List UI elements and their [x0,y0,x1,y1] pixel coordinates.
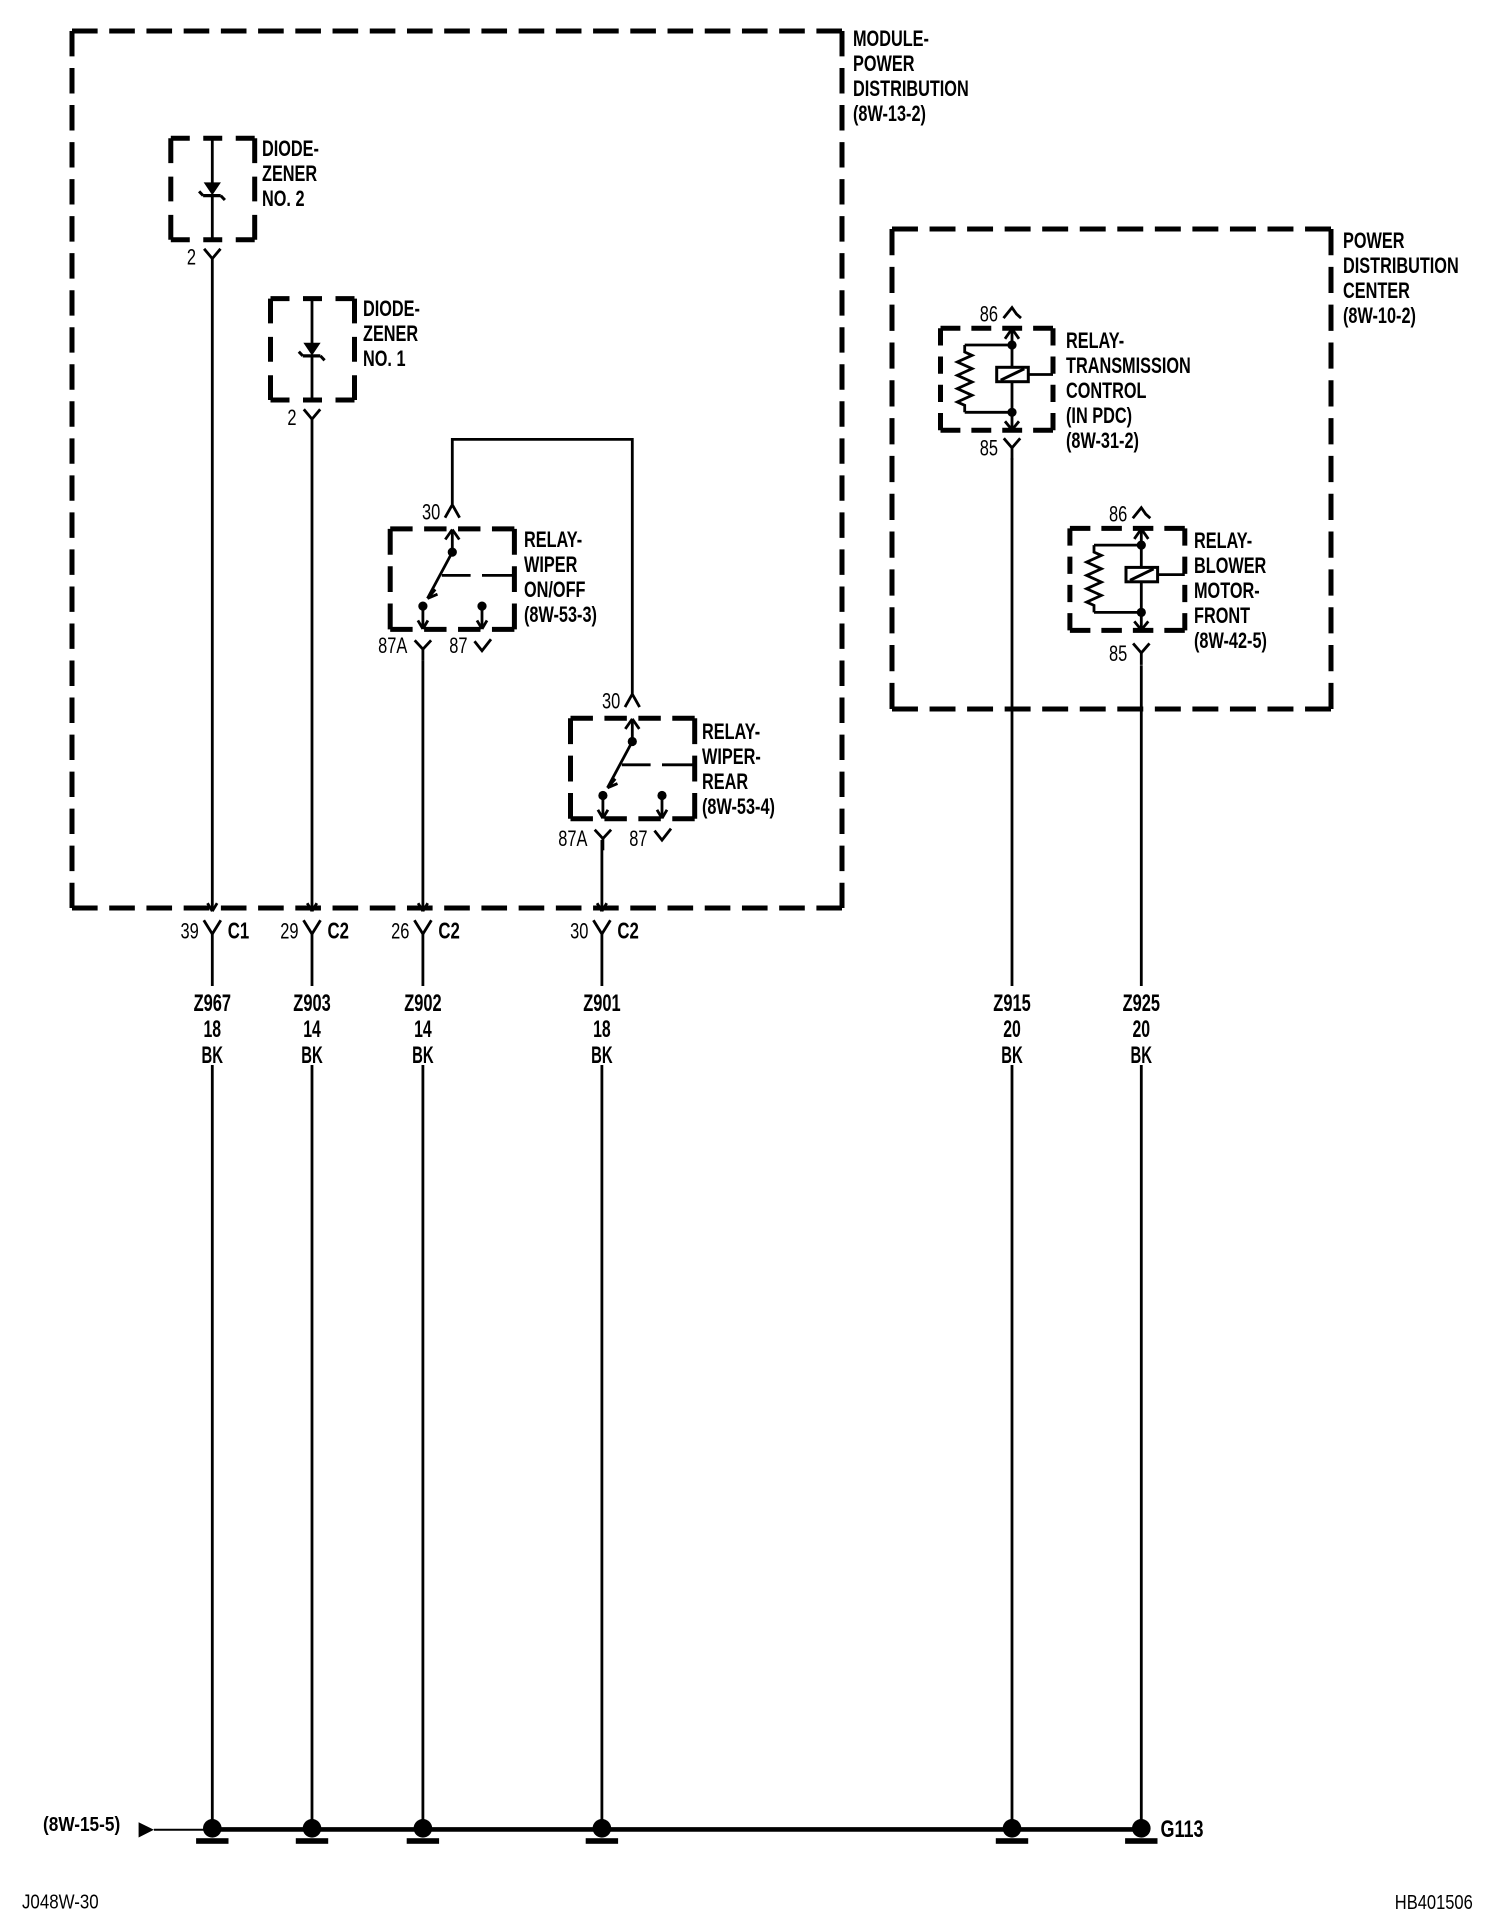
ground G113 label [1161,1816,1204,1843]
footer label J048W-30 [22,1892,99,1914]
svg-text:Z925: Z925 [1123,990,1160,1017]
svg-text:HB401506: HB401506 [1395,1892,1473,1914]
svg-text:86: 86 [1109,502,1127,527]
svg-text:87A: 87A [558,826,588,851]
wire: jumper to relay pin 30s [452,439,632,693]
svg-text:G113: G113 [1161,1816,1204,1843]
svg-text:Z967: Z967 [194,990,231,1017]
wire Z901 upper segment [597,840,607,911]
wire Z902 upper segment [418,661,428,911]
svg-text:RELAY-: RELAY- [1194,528,1252,553]
svg-text:ZENER: ZENER [262,161,317,186]
svg-text:86: 86 [980,302,998,327]
wire Z915 label [993,990,1030,1069]
wire Z915 upper segment [1011,458,1014,986]
svg-text:TRANSMISSION: TRANSMISSION [1066,353,1191,378]
svg-text:C2: C2 [617,919,638,944]
svg-text:Z901: Z901 [583,990,620,1017]
svg-text:RELAY-: RELAY- [524,527,582,552]
svg-text:87: 87 [449,633,467,658]
svg-text:WIPER-: WIPER- [702,744,761,769]
wire Z967 label [194,947,231,1069]
svg-text:85: 85 [1109,641,1127,666]
ground junction (Z967) [196,1819,228,1844]
svg-text:20: 20 [1003,1016,1021,1043]
svg-text:DISTRIBUTION: DISTRIBUTION [1343,253,1459,278]
pin 39 connector C1 [181,919,250,947]
svg-text:(8W-31-2): (8W-31-2) [1066,428,1139,453]
wire Z901 lower segment [601,1065,604,1824]
svg-text:(IN PDC): (IN PDC) [1066,403,1132,428]
svg-text:30: 30 [570,919,588,944]
relay K4: RELAY-BLOWER MOTOR-FRONT [1070,502,1267,666]
svg-text:REAR: REAR [702,769,748,794]
svg-text:CENTER: CENTER [1343,278,1410,303]
zener diode D2: DIODE-ZENER NO. 2 [171,136,319,239]
wire Z967 lower segment [211,1065,214,1824]
ground junction (Z901) [586,1819,618,1844]
svg-text:DIODE-: DIODE- [363,296,420,321]
svg-text:(8W-10-2): (8W-10-2) [1343,303,1416,328]
svg-text:Z903: Z903 [293,990,330,1017]
wire Z901 label [583,947,620,1069]
svg-text:30: 30 [422,500,440,525]
svg-text:2: 2 [187,245,196,270]
svg-text:Z915: Z915 [993,990,1030,1017]
wire Z915 lower segment [1011,1065,1014,1824]
pin 2 (zener no.1) [287,405,320,430]
wire Z925 label [1123,990,1160,1069]
ground junction (Z915) [996,1819,1028,1844]
wire Z902 lower segment [421,1065,424,1824]
ground bus wire [212,1827,1141,1832]
svg-text:18: 18 [593,1016,611,1043]
ground junction (Z902) [407,1819,439,1844]
wire Z925 lower segment [1140,1065,1143,1824]
svg-text:Z902: Z902 [404,990,441,1017]
svg-text:NO. 1: NO. 1 [363,346,406,371]
svg-text:POWER: POWER [1343,228,1405,253]
svg-text:MOTOR-: MOTOR- [1194,578,1260,603]
svg-text:20: 20 [1133,1016,1151,1043]
svg-text:(8W-15-5): (8W-15-5) [43,1814,120,1836]
svg-text:(8W-42-5): (8W-42-5) [1194,628,1267,653]
svg-text:C2: C2 [328,919,349,944]
pin 30 connector C2 [570,919,639,947]
svg-text:WIPER: WIPER [524,552,577,577]
svg-text:87: 87 [629,826,647,851]
svg-text:BLOWER: BLOWER [1194,553,1266,578]
pin 2 (zener no.2) [187,245,221,270]
svg-text:(8W-53-4): (8W-53-4) [702,794,775,819]
svg-text:C2: C2 [438,919,459,944]
svg-text:J048W-30: J048W-30 [22,1892,99,1914]
svg-text:NO. 2: NO. 2 [262,186,305,211]
svg-text:DISTRIBUTION: DISTRIBUTION [853,76,969,101]
wire Z903 label [293,947,330,1069]
svg-text:29: 29 [280,919,298,944]
svg-text:POWER: POWER [853,51,915,76]
svg-text:87A: 87A [378,633,408,658]
svg-text:CONTROL: CONTROL [1066,378,1147,403]
svg-text:ZENER: ZENER [363,321,418,346]
svg-text:39: 39 [181,919,199,944]
svg-text:ON/OFF: ON/OFF [524,577,586,602]
svg-text:RELAY-: RELAY- [702,719,760,744]
wire Z967 upper segment [208,267,218,912]
relay K3: RELAY-TRANSMISSION CONTROL [941,302,1191,461]
ground junction (Z925) [1125,1819,1157,1844]
wire Z902 label [404,947,441,1069]
svg-text:14: 14 [414,1016,432,1043]
module box: MODULE-POWER DISTRIBUTION [72,26,969,908]
svg-text:2: 2 [287,405,296,430]
wire Z903 lower segment [311,1065,314,1824]
svg-text:(8W-53-3): (8W-53-3) [524,602,597,627]
footer label HB401506 [1395,1892,1473,1914]
relay K1: RELAY-WIPER ON/OFF [378,500,597,661]
svg-text:DIODE-: DIODE- [262,136,319,161]
svg-text:(8W-13-2): (8W-13-2) [853,101,926,126]
svg-text:FRONT: FRONT [1194,603,1250,628]
relay K2: RELAY-WIPER-REAR [558,689,775,851]
svg-text:18: 18 [204,1016,222,1043]
svg-text:85: 85 [980,436,998,461]
zener diode D1: DIODE-ZENER NO. 1 [271,296,420,400]
svg-text:14: 14 [303,1016,321,1043]
wire Z925 upper segment [1140,665,1143,986]
pin 29 connector C2 [280,919,349,947]
module box: POWER DISTRIBUTION CENTER [892,228,1459,709]
ground junction (Z903) [296,1819,328,1844]
pin 26 connector C2 [391,919,460,947]
svg-text:RELAY-: RELAY- [1066,328,1124,353]
svg-text:26: 26 [391,919,409,944]
svg-text:MODULE-: MODULE- [853,26,929,51]
svg-text:30: 30 [602,689,620,714]
wire Z903 upper segment [307,427,317,911]
ground feed arrow (8W-15-5) [43,1814,212,1838]
svg-text:C1: C1 [228,919,249,944]
